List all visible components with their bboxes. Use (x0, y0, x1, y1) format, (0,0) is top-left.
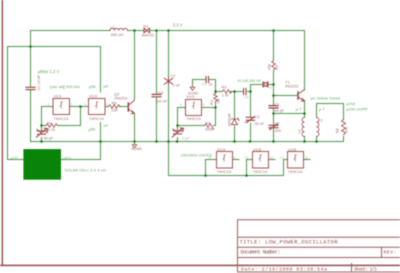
capacitor C1 45pF (269, 106, 278, 108)
wire riser to V1/6 input (284, 160, 288, 176)
svg-text:5 pF: 5 pF (182, 136, 190, 140)
svg-text:12: 12 (305, 156, 309, 160)
svg-text:360k: 360k (205, 126, 214, 131)
capacitor C8 series (244, 88, 247, 94)
wire colpitts tap y=113.8 (274, 113, 305, 115)
svg-text:Sheet: 1/1: Sheet: 1/1 (354, 266, 377, 272)
svg-text:30 pF: 30 pF (44, 137, 54, 141)
svg-text:6: 6 (203, 103, 205, 107)
svg-text:SOLAR CELL 4 X 4 cm: SOLAR CELL 4 X 4 cm (65, 168, 107, 173)
svg-text:µ200 mVPP: µ200 mVPP (346, 106, 368, 111)
capacitor C3 50uF polarized (246, 117, 254, 123)
svg-text:R8: R8 (336, 128, 340, 133)
svg-text:200: 200 (275, 129, 281, 133)
svg-text:9: 9 (209, 156, 211, 160)
wire riser to V1/5 input (247, 160, 253, 176)
svg-text:C2: C2 (275, 122, 280, 126)
wire U1A input (42, 106, 54, 108)
wire solar cell left lead (8, 159, 24, 161)
svg-text:C7: C7 (179, 129, 184, 133)
svg-text:4.7k: 4.7k (48, 127, 56, 132)
svg-text:74HC14: 74HC14 (288, 169, 303, 174)
wire U1A out to U1B in (70, 106, 89, 108)
capacitor C5 (152, 94, 161, 96)
wire C2 leg x=168.8 (168, 31, 170, 142)
ground AGND near C6 (190, 85, 195, 90)
wire V1/5 output stub (269, 159, 276, 161)
resistor R3 vertical (214, 94, 218, 102)
svg-text:V1/5: V1/5 (253, 147, 262, 152)
wire VCC top rail y=30.7 (31, 30, 305, 32)
svg-text:45 pF: 45 pF (275, 109, 285, 113)
transformer secondary coil (317, 118, 319, 137)
resistor R5 vertical (272, 61, 276, 70)
svg-text:µCC: µCC (10, 156, 18, 161)
svg-text:TITLE: LOW_POWER_OSCILLATOR: TITLE: LOW_POWER_OSCILLATOR (240, 238, 339, 245)
svg-text:V1/6: V1/6 (288, 147, 297, 152)
svg-text:4: 4 (106, 103, 108, 107)
svg-text:µ56: µ56 (89, 84, 97, 89)
svg-text:3: 3 (84, 103, 86, 107)
svg-text:5: 5 (180, 103, 182, 107)
wire R6 to Q2 base (120, 106, 128, 108)
svg-text:R5: R5 (275, 65, 279, 70)
svg-text:Date: 2/19/2008 03:30:54a: Date: 2/19/2008 03:30:54a (241, 266, 327, 272)
svg-text:µEO: µEO (63, 156, 71, 161)
resistor R8 vertical (342, 120, 346, 135)
transistor Q2 2N2222 (127, 103, 129, 111)
svg-text:11: 11 (245, 156, 249, 160)
svg-text:13: 13 (280, 156, 284, 160)
svg-text:10,140,300 HZ: 10,140,300 HZ (237, 79, 262, 83)
svg-text:C1 10 nF: C1 10 nF (37, 74, 41, 90)
wire U1C input drop x=177.9 (177, 108, 179, 142)
svg-text:1N4148: 1N4148 (228, 114, 232, 127)
svg-text:1 M: 1 M (222, 93, 229, 98)
capacitor trimmer C7 (172, 128, 183, 137)
svg-text:Q1: Q1 (269, 85, 274, 89)
transformer primary coil (302, 118, 304, 137)
svg-text:100 nF: 100 nF (155, 99, 168, 104)
svg-text:C4: C4 (44, 131, 49, 135)
svg-text:2: 2 (71, 103, 73, 107)
transistor T1 2N2222 (297, 92, 299, 99)
svg-text:8: 8 (234, 156, 236, 160)
wire secondary coil bottom stub (316, 137, 318, 142)
svg-text:L2: L2 (298, 129, 302, 133)
svg-text:Document Number:: Document Number: (241, 250, 281, 256)
title block sheet divider (351, 264, 353, 273)
wire net stub x=101 upper (100, 47, 102, 93)
wire C6 row y=79.5 (193, 79, 216, 81)
svg-text:10: 10 (209, 83, 213, 87)
svg-text:L3: L3 (318, 118, 322, 122)
wire T1 emitter drop x=304.3 (304, 101, 306, 118)
svg-text:74HC14: 74HC14 (54, 116, 69, 121)
wire R8 column x=343 (343, 104, 345, 142)
gate U1C 74HC14 (186, 100, 202, 116)
wire R5 column x=273.3 (273, 31, 275, 142)
svg-text:µn Yellow Tuned: µn Yellow Tuned (311, 95, 340, 100)
diode D2 1N4148 (231, 118, 239, 124)
svg-text:C2: C2 (171, 74, 176, 78)
svg-text:C6: C6 (202, 82, 207, 86)
capacitor C6 (206, 76, 209, 82)
svg-text:V1/4: V1/4 (217, 147, 226, 152)
svg-text:R3: R3 (210, 100, 214, 105)
svg-text:[osc adj] 900 khz: [osc adj] 900 khz (50, 84, 80, 89)
title block thick band (238, 265, 400, 267)
capacitor C2 1uF polarized (164, 78, 172, 85)
wire solar VCC vertical x=7 (7, 47, 9, 160)
capacitor C1 bypass (26, 87, 35, 89)
gate U1B 74HC14 (89, 99, 106, 115)
svg-text:C1: C1 (275, 102, 280, 106)
svg-text:L1: L1 (111, 24, 116, 29)
gate V1/4 74HC14 unused (217, 152, 233, 169)
title block REV divider (381, 247, 383, 257)
wire V1/4 output stub (233, 159, 240, 161)
svg-text:R2: R2 (222, 85, 228, 90)
wire VCC vertical x=30 (C1 leg) (30, 31, 32, 142)
svg-text:µMax 1.2 V: µMax 1.2 V (38, 69, 59, 74)
svg-text:C5: C5 (158, 90, 164, 95)
wire primary coil bottom stub (304, 137, 306, 142)
wire R4 row y=126 (178, 125, 216, 127)
svg-text:µ56: µ56 (89, 127, 97, 132)
capacitor trimmer C4 (36, 128, 47, 137)
resistor R1 (46, 124, 58, 128)
svg-text:REV:: REV: (384, 250, 397, 256)
svg-text:µ T: µ T (319, 106, 325, 111)
svg-text:10k: 10k (345, 127, 349, 133)
svg-text:V1/2: V1/2 (89, 94, 98, 99)
wire R1 feedback y=126 (42, 125, 81, 127)
svg-text:C8: C8 (244, 96, 249, 100)
wire unused gates tap x=168.8 (168, 142, 170, 176)
resistor R2 (223, 90, 232, 94)
wire crystal row y=91.2 (216, 91, 251, 93)
node junction dots (29, 45, 32, 48)
svg-text:C3: C3 (255, 115, 260, 119)
wire C5 leg x=156.5 (156, 31, 158, 142)
svg-text:R6: R6 (112, 100, 118, 105)
wire C3 column x=250 (250, 85, 252, 142)
svg-text:UNUSED GATES: UNUSED GATES (181, 153, 213, 158)
wire solar top horizontal y=46.8 (8, 46, 101, 48)
svg-text:74HC14: 74HC14 (253, 169, 268, 174)
wire Q2 emitter drop x=134 (134, 114, 136, 142)
solar cell SC1 (23, 149, 61, 180)
wire D2 column x=234.5 (234, 92, 236, 142)
wire secondary top to output y=103.8 (317, 104, 344, 118)
wire feedback riser x=80.5 (80, 107, 82, 126)
wire U1C input (178, 107, 186, 109)
wire C6 AGND stub x=192 (192, 80, 194, 86)
title block outline (238, 220, 400, 272)
frame bottom border (0, 265, 238, 267)
svg-text:µ4: µ4 (104, 83, 109, 88)
wire U1C output (202, 107, 216, 109)
gate U1A 74HC14 (53, 99, 70, 115)
title block row divider 3 (238, 257, 400, 259)
inductor L1 (110, 28, 128, 30)
svg-text:R1: R1 (47, 121, 53, 126)
gate V1/5 74HC14 unused (253, 152, 269, 169)
title block row divider 2 (238, 246, 400, 248)
svg-text:µ2: µ2 (104, 123, 109, 128)
svg-text:R4: R4 (205, 121, 211, 126)
svg-text:74HC14: 74HC14 (217, 169, 232, 174)
wire solar cell right lead (61, 159, 101, 161)
svg-text:50 uF: 50 uF (255, 122, 265, 126)
svg-text:40k: 40k (267, 64, 271, 70)
wire U1B out to R6 (105, 106, 109, 108)
frame left border (2, 0, 3, 266)
wire U1A input drop x=41.9 (41, 107, 43, 142)
svg-text:10: 10 (270, 156, 274, 160)
svg-text:3.3 V: 3.3 V (173, 22, 183, 27)
svg-text:1: 1 (48, 103, 50, 107)
wire solar return riser x=100.5 (100, 123, 102, 160)
ground AGND main rail (132, 143, 137, 149)
resistor R6 (109, 105, 120, 109)
capacitor C2 200 polarized (269, 124, 278, 130)
svg-text:2N2222: 2N2222 (285, 84, 299, 89)
wire R4 riser x=215.4 (215, 108, 217, 126)
wire R3 column x=215.4 (215, 80, 217, 108)
svg-text:µ T: µ T (296, 106, 302, 111)
wire V1/6 output stub (304, 159, 311, 161)
svg-text:1M: 1M (217, 99, 221, 104)
gate V1/6 74HC14 unused (288, 152, 304, 169)
crystal Q1 (263, 82, 268, 87)
svg-text:74HC14: 74HC14 (89, 116, 104, 121)
svg-text:AGND: AGND (132, 147, 143, 151)
svg-text:300 uH: 300 uH (111, 32, 124, 37)
wire AGND bottom rail y=141.5 (31, 141, 344, 143)
wire unused gates ground bus y=175.2 (169, 175, 284, 177)
title block row divider 1 (238, 236, 400, 238)
svg-text:150: 150 (111, 108, 118, 113)
svg-text:D1: D1 (144, 23, 150, 28)
diode D1 BAT43 (144, 28, 150, 33)
wire Q2 collector riser x=134 (134, 31, 136, 100)
svg-text:BAT43: BAT43 (142, 32, 155, 37)
svg-text:V1/1: V1/1 (54, 94, 63, 99)
svg-text:µOut: µOut (346, 101, 356, 106)
svg-text:V1/3: V1/3 (186, 94, 195, 99)
svg-text:74HC14: 74HC14 (186, 116, 201, 121)
resistor R4 (205, 124, 214, 129)
wire riser to V1/4 input (206, 160, 217, 176)
wire T1 collector riser x=304.3 (304, 31, 306, 90)
wire T1 base y=95 (274, 95, 298, 97)
wire crystal top row y=84.3 (251, 84, 274, 86)
svg-text:1 uF: 1 uF (173, 84, 181, 88)
